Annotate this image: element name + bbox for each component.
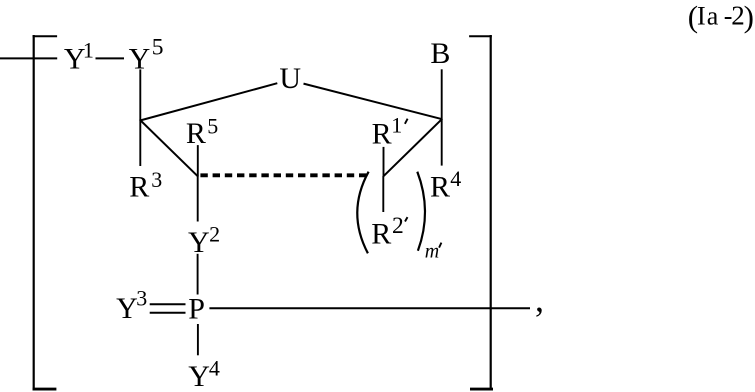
left bracket top arm [33,35,58,37]
bond R5 down to C1 [197,145,199,176]
bond Y5 down to node V1 [139,69,141,120]
svg-text:Y: Y [188,360,210,392]
svg-text:1: 1 [391,113,402,138]
svg-text:R: R [129,171,149,204]
svg-text:m: m [425,240,439,262]
bond B down to node V2 [441,69,443,119]
left parenthesis of (R2')m' group [357,172,368,254]
bond C1 down to Y2 [197,176,199,221]
svg-text:R: R [372,117,392,150]
bond V2 down to R4 [441,119,443,166]
svg-text:Y: Y [116,292,138,325]
svg-text:I: I [697,2,706,31]
bond V1 to U (left diagonal) [140,83,278,120]
svg-text:5: 5 [152,34,164,60]
double bond Y3=P upper line [150,303,186,305]
svg-text:,: , [535,279,544,319]
svg-text:3: 3 [151,167,162,192]
svg-text:R: R [186,117,206,150]
svg-text:4: 4 [450,166,461,191]
prime mark of R1' [405,119,408,124]
svg-text:3: 3 [136,286,147,311]
svg-text:5: 5 [207,113,218,138]
svg-text:2: 2 [392,213,404,239]
right parenthesis of (R2')m' group [417,172,425,251]
bond Y1-Y5 [96,57,125,59]
prime mark of R2' [405,217,408,221]
right bracket top arm [469,35,492,37]
prime mark of m' subscript [439,243,441,248]
right bracket bottom arm [470,388,493,391]
wire: left attachment horizontal line through bracket [0,57,57,59]
svg-text:U: U [279,62,301,95]
bond V1 to C1 diagonal [140,120,198,177]
svg-text:): ) [744,0,754,34]
svg-text:Y: Y [129,42,151,75]
svg-text:R: R [371,218,391,251]
svg-text:a: a [707,2,719,31]
double bond Y3=P lower line [150,312,186,314]
svg-text:Y: Y [188,226,210,259]
bond P down to Y4 [197,324,199,355]
svg-text:R: R [430,171,450,204]
svg-text:4: 4 [209,355,220,380]
left bracket vertical [33,35,35,391]
svg-text:1: 1 [83,37,94,62]
bond V1 down to R3 [139,120,141,166]
bond R1' down to C2 [383,147,385,176]
dashed bond C1 to C2 [200,173,368,177]
bond C2 down to R2' [382,176,384,212]
svg-text:P: P [188,293,205,326]
svg-text:B: B [430,37,450,70]
bond Y2 down to P [197,254,199,295]
bond C2 to V2 diagonal [384,119,443,176]
svg-text:2: 2 [209,221,220,246]
left bracket bottom arm [33,388,57,391]
right bracket vertical [490,35,492,391]
bond P to right (long horizontal through bracket) [209,307,530,309]
bond U to V2 (right diagonal) [304,84,443,120]
